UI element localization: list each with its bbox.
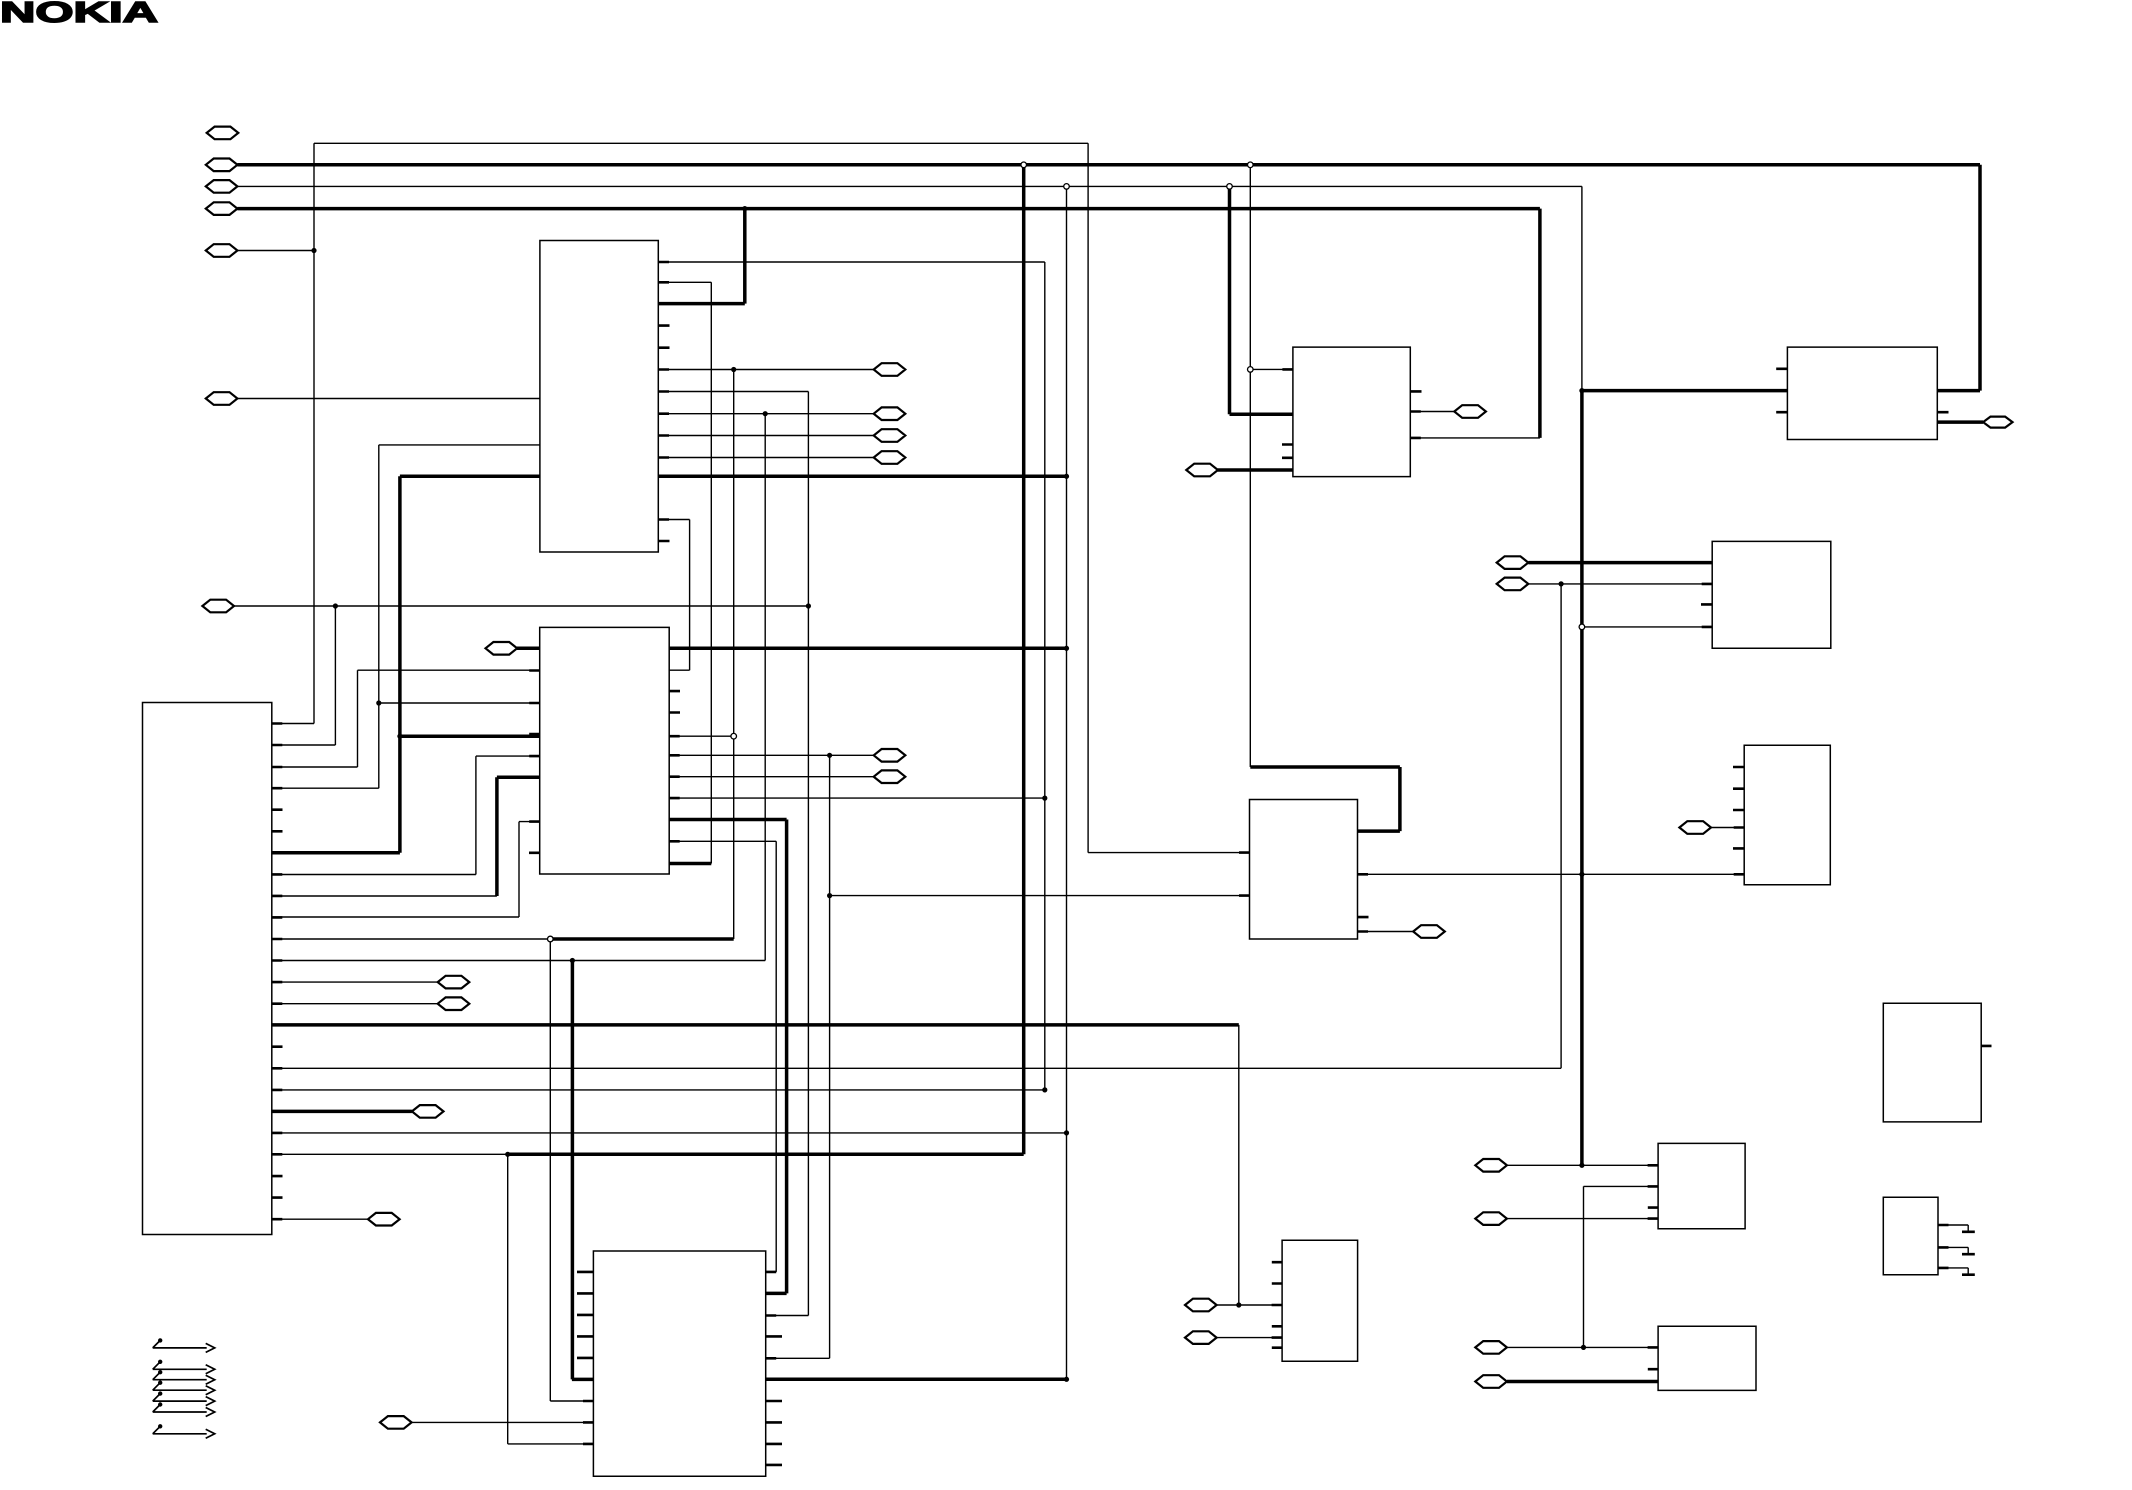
svg-text:NOKIA: NOKIA bbox=[0, 0, 158, 29]
